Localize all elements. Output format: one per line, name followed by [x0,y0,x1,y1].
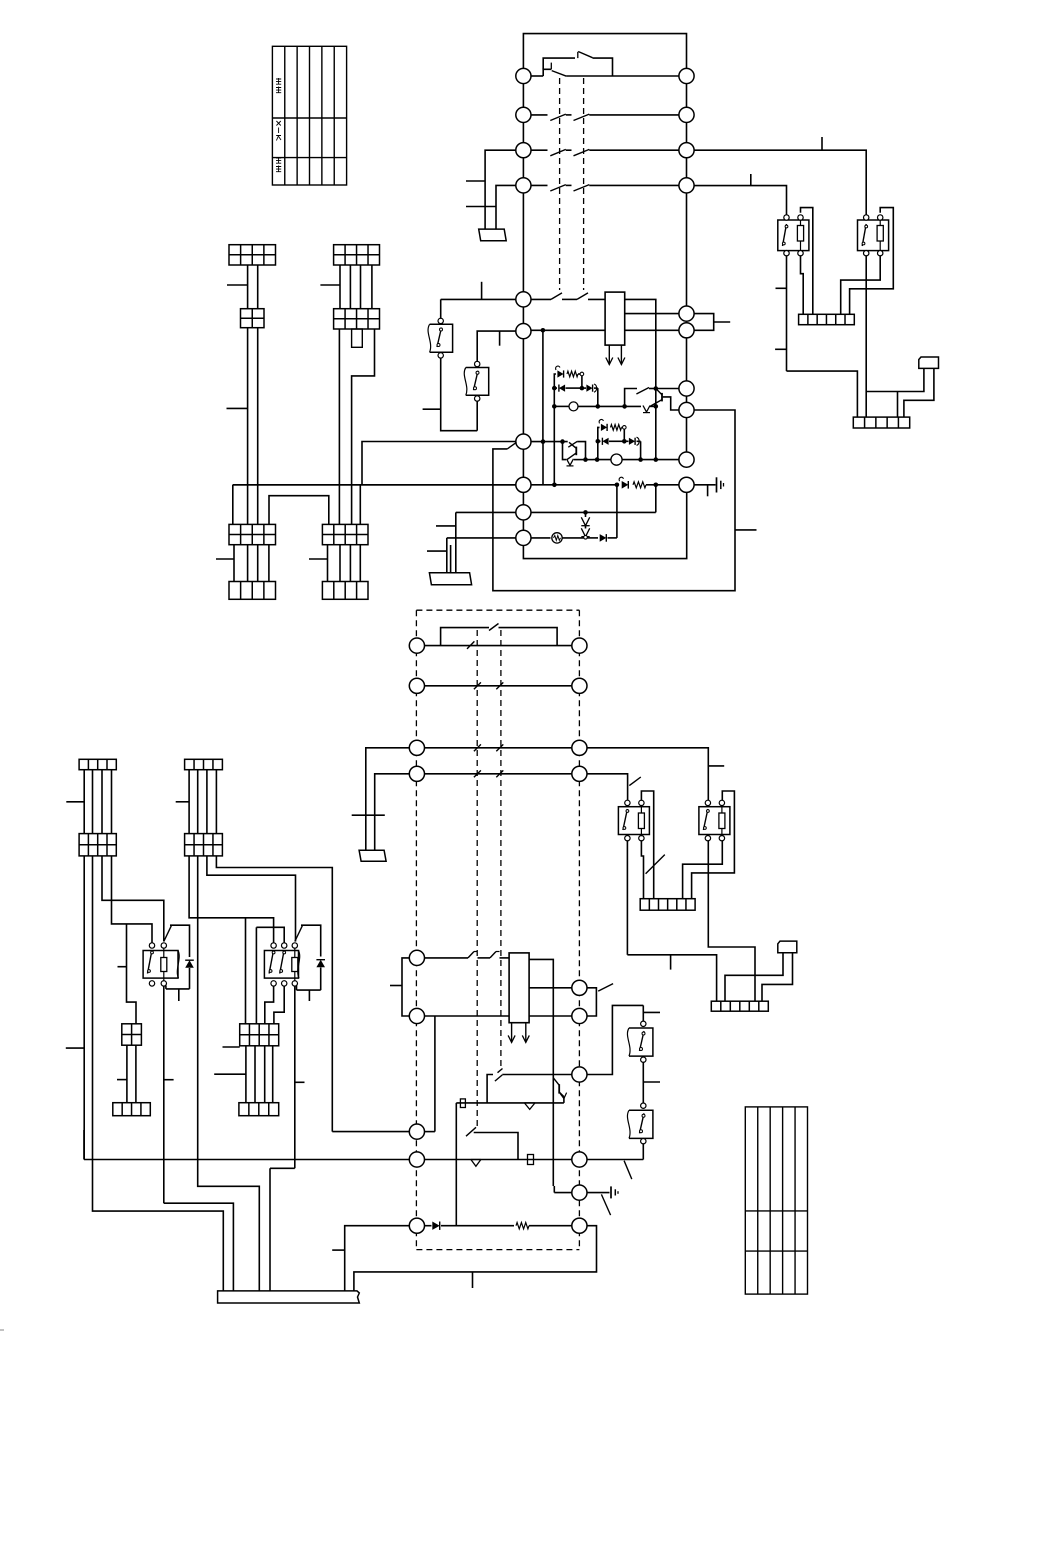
relay coil CR1 [605,292,625,345]
relay K3 contact lead [626,840,628,955]
row A bypass box [441,628,489,646]
PB1 top lead [440,299,442,318]
terminal circle L10 [516,530,531,545]
relay K4 bracket [692,791,735,899]
wire CN1 lead b [904,368,934,417]
harness row A wire [424,645,571,647]
relay coil CR4 [509,953,529,1023]
diode CR5 [432,1222,439,1230]
dashed pole line 1 [559,78,561,290]
terminal circle R1 [679,68,694,83]
conn L1 wires [83,770,85,834]
wire K5 down [163,986,165,1204]
row J left lead to bus [345,1226,410,1291]
table row2 label [276,121,281,141]
terminal circle L4 [516,178,531,193]
stack1 wires a [247,265,249,309]
harness dashed box top [416,609,579,611]
wire K3 to TB4 [627,955,716,1001]
stack2 wire b1 [338,329,340,524]
relay K3 coil lead [641,840,643,898]
terminal circle J-R [572,1218,587,1233]
chassis ground plate 3 [359,850,386,861]
left terminal column [522,84,524,292]
terminal circle E-R [572,1067,587,1082]
left rows feed verticals [455,512,457,572]
junction riser [542,330,544,441]
terminal circle L7 [516,434,531,449]
wire to switch Q1 region [598,405,625,407]
relay2 feed wires [245,918,247,1024]
left column mid [522,307,524,324]
row I wire [554,1192,572,1194]
K5 resistor [163,948,165,958]
transistor Q2 [575,447,577,456]
stub on ground lead 2 [466,206,496,208]
connector frame top [523,34,686,69]
wire L2c3 jog [207,856,296,942]
enclosure stub [735,529,757,531]
CR4 out mid [529,987,572,989]
motor M1 [552,533,562,543]
terminal circle L3 [516,143,531,158]
wire TB2 in [897,392,899,418]
wire row 538 [447,537,516,539]
left col seg 9 [522,520,524,530]
switchbox SW2 [641,1103,646,1108]
stub loop b [472,1272,474,1288]
stub k1b [775,348,786,350]
thyristor trigger TH1 [554,374,556,388]
zener chain [585,512,587,517]
TH2 right drop [640,441,642,459]
SW2 bottom lead [642,1143,644,1159]
relay K2 contact lead [865,255,867,417]
row E wire [487,1075,493,1103]
terminal circle R9 [679,452,694,467]
CR1 arrow b [620,345,622,364]
S7 bracket [577,442,585,460]
relay K4 [699,807,730,835]
blade row I [601,1194,610,1215]
stub s1b [227,407,248,409]
PB2 bottom lead [476,401,478,431]
terminal circle D-L [409,766,424,781]
bracket stub [714,321,731,323]
hook switch a [468,952,474,958]
lamp DS2 [611,454,622,465]
stub tb4 [670,955,672,970]
terminal circle L6 [516,324,531,339]
terminal circle R5 [679,306,694,321]
stub junction [821,137,823,150]
Q1 emitter wire [625,405,641,407]
K6 pin1 step [265,986,274,1024]
riser node col [655,485,657,513]
diode CR2 with gate [619,477,623,481]
stack1 mid block [241,309,265,328]
CR1 out mid [625,313,679,315]
wire row4 right to relay K2 [694,186,786,216]
stub sw1 [643,1011,660,1013]
TH1 left rail [553,388,555,406]
stub on ground lead [466,180,485,182]
bus bar [218,1291,360,1303]
CR4 arrow a [511,1023,513,1043]
table row3 label [276,157,281,163]
pushbutton switch PB1 [430,324,453,352]
stack2 wires c [327,545,329,582]
hook switch b [490,952,496,958]
stack2 low block [322,524,368,544]
terminal circle L2 [516,107,531,122]
conn L2 mid block [185,834,223,856]
blade row D [629,777,641,786]
terminal circle C-R [572,740,587,755]
ground G1 [694,484,715,486]
bracket rows K/M [402,958,409,1016]
dashed end blade [498,1069,503,1073]
terminal circle G-L [409,1124,424,1139]
blade row H right [624,1161,632,1179]
contact row 4 wire [531,184,547,186]
harness dashed left [415,610,417,1249]
contact row 2 wire [531,114,547,116]
wire K6 down [294,986,296,1169]
conn L2 top block [185,759,223,769]
relay K1 coil lead [801,255,804,314]
stub s1a [227,284,248,286]
terminal strip TB6 [239,1103,279,1116]
node column [655,389,657,407]
terminal circle R2 [679,107,694,122]
TH2 left drop [597,441,599,459]
left col seg 8 [522,449,524,477]
switchbox SW1 [642,1005,644,1021]
relay K1 bracket [801,208,813,315]
row J wire [424,1225,431,1227]
pushbutton switch PB2 [466,368,489,396]
diode V1 [524,1103,535,1110]
contact row 3 wire [531,149,547,151]
blade K3 [646,855,665,874]
right column seg [686,396,688,402]
row J return loop [354,1226,597,1291]
CR4 arrow b [525,1023,527,1043]
stack2 wire b2 [359,485,361,525]
wire L1c1 to row H [83,856,85,1160]
stub l1 low [66,1047,84,1049]
stub l1 [66,801,84,803]
stack1 wires b [247,328,249,525]
wire row3 right to relay K1 [694,150,866,215]
stub rows a [436,525,456,527]
terminal circle M-L [409,1008,424,1023]
terminal strip TB3 [640,899,695,911]
CR4 out top [529,959,553,1186]
harness row B wire [424,685,571,687]
wire bus 484 [232,485,234,525]
stack2 top block [334,245,380,265]
bottom loop wire [523,492,686,558]
row 6 wire right [625,329,679,331]
terminal circle L-R [572,980,587,995]
harness row D wire [424,773,571,775]
row G left wire [332,1131,409,1133]
terminal circle R10 [679,477,694,492]
wire CN1 lead a [866,368,924,391]
row I ground lead [587,1192,610,1194]
terminal circle B-R [572,678,587,693]
inner dashed line 1 [476,630,478,1127]
wire L1c2 to bus [93,856,224,1291]
riser row F to row J [455,1103,457,1226]
stub b1 [117,1079,127,1081]
switch S6 blade [636,388,649,395]
stack2 bottom block [322,582,368,600]
terminal circle C-L [409,740,424,755]
resistor R1 [633,482,646,488]
connector CN2 [778,941,797,953]
stack2 step wire [352,329,375,524]
B1 wires [126,1045,128,1103]
stub s1c [216,558,234,560]
right terminal column [686,84,688,306]
terminal table 2 [745,1107,807,1294]
terminal circle A-L [409,638,424,653]
row H wire [83,1130,85,1160]
stub s2c [309,558,328,560]
wire relay feed [127,924,137,1024]
terminal circle J-L [409,1218,424,1233]
row 6 wire left [531,329,605,331]
stub k5 [164,1079,174,1081]
contact row 5 wire [441,298,551,300]
wire L2c4 to row G [216,856,332,1132]
table row1 label [276,78,281,84]
terminal circle R3 [679,143,694,158]
stub sw2 [643,1081,660,1083]
terminal circle B-L [409,678,424,693]
riser CR3 [616,485,618,538]
switch S6 bracket [625,389,637,407]
wire K1 to TB2 [787,371,858,417]
wire L1c3 jog [102,856,164,942]
bracket stub KM [390,985,402,987]
dashed pole line 2 [583,78,585,290]
row C left lead to ground [366,748,410,851]
terminal circle R6 [679,323,694,338]
terminal circle A-R [572,638,587,653]
terminal circle L5 [516,292,531,307]
fuse F1 [460,1099,465,1108]
row F wire [456,1102,564,1104]
K6 suppressor diode loop [301,925,321,956]
relay K4 contact lead [708,840,755,1001]
transistor Q1 [661,393,663,402]
wire node to R7 [656,388,679,390]
terminal circle K-L [409,950,424,965]
terminal strip TB2 [853,417,909,428]
terminal strip TB1 [799,314,855,324]
spec table [272,46,346,185]
terminal circle L1 [516,68,531,83]
wire L7 row [531,441,568,443]
stack2 wires a [339,265,341,309]
enclosure hook blade [507,442,516,449]
wire L2c2 to bus [198,856,260,1291]
stub row C [708,765,724,767]
fuse F2 [528,1155,534,1165]
row D right lead [587,774,628,801]
cross stub [352,814,385,816]
right bracket [694,314,714,331]
terminal circle R8 [679,402,694,417]
terminal circle L8 [516,477,531,492]
relay K3 bracket [641,791,653,899]
B2 wires [245,1046,247,1103]
terminal circle I-R [572,1185,587,1200]
TH1 right drop [597,388,599,406]
chassis ground plate 2 [429,573,471,585]
stub s2a [320,284,340,286]
stack1 bottom block [229,582,276,600]
wire L1c4 to relay [112,856,153,944]
wire row 460 [586,459,594,461]
TH1 diode row [554,387,557,389]
stub rows b [427,550,447,552]
relay K2 [858,220,889,251]
K6 blade top [295,926,303,942]
K6 resistor [294,948,296,958]
wire row3 left to ground [485,150,516,229]
TH2 diode row [598,440,601,442]
relay K3 [618,807,649,835]
diode V2 [471,1160,481,1167]
Q3 emitter lead [563,1097,565,1103]
riser th1 [553,406,555,484]
connector CN1 [919,357,939,368]
riser row M to row G [434,1016,436,1132]
relay K5 [143,951,178,979]
row 485 right [531,484,615,486]
wire S6 to node [649,388,656,390]
conn block B1 [122,1024,142,1045]
stub rf [118,966,127,968]
terminal strip TB5 [113,1103,151,1116]
u-link wire [269,496,329,525]
stack2 mid block [334,309,380,329]
bracket rows L/M right [587,988,596,1016]
conn L1 top block [79,759,116,769]
row C right lead [587,748,708,801]
chassis ground plate top [479,229,507,241]
row E right lead [587,1005,643,1074]
inner dashed line 2 [500,630,502,1070]
enclosure box [493,410,735,591]
page mark [0,1329,4,1331]
switch to row H [466,1127,476,1136]
stub k1a [776,287,787,289]
K5 tick [178,989,180,1001]
row D left lead to ground [375,774,410,851]
wire row 485 left [233,484,516,486]
stub junction 2 [750,174,752,186]
stack1 low block [229,524,276,544]
transistor Q3 [558,1084,560,1093]
right column mid [686,338,688,381]
terminal circle H-L [409,1152,424,1167]
harness dashed right [578,610,580,1249]
relay K4 coil lead [683,840,723,898]
PB1 bottom lead [441,358,478,431]
terminal circle M-R [572,1008,587,1023]
row K wire [424,957,468,959]
row G right wire [424,1131,435,1133]
switch S7 blade [568,441,577,447]
stub l2 [176,801,189,803]
stub k6 [295,1081,305,1083]
PB2 top lead [477,331,516,362]
relay K2 coil lead [841,255,881,314]
terminal circle D-R [572,766,587,781]
wire bus 441 [362,442,516,485]
harness row C wire [424,747,571,749]
Q1 collector out [663,397,679,410]
bypass branch with switch [543,58,575,69]
blade LM [598,984,613,992]
wire CN2 lead b [762,953,793,1002]
relay K1 contact lead [786,255,788,371]
wire CN2 lead a [725,953,783,1002]
terminal circle L9 [516,505,531,520]
terminal circle R4 [679,178,694,193]
diode CR3 [600,534,607,542]
stub r2a [223,1046,240,1048]
stack1 wires c [233,545,235,582]
wire row4 left to ground [496,185,516,229]
thyristor trigger TH2 [598,427,600,441]
stub row5 [481,282,483,300]
terminal circle R7 [679,381,694,396]
CR1 arrow a [608,345,610,364]
switchbox link [642,1062,644,1104]
wire to bus 4 [270,1167,295,1169]
row M wire [424,1015,509,1017]
conn L2 wires [188,770,190,834]
resistor R2 [516,1223,529,1229]
CR1 out top [625,299,656,388]
harness dashed bottom [416,1249,579,1251]
stack1 top block [229,245,276,265]
stub pb1 [423,408,441,410]
Q2 emitter bracket [563,442,567,460]
ground G2 [610,1186,612,1198]
riser l8 [542,442,544,485]
terminal strip TB4 [711,1001,768,1011]
K5 suppressor diode loop [170,925,190,957]
K6 tick [308,990,310,1001]
terminal circle H-R [572,1152,587,1167]
stub loop a [332,1249,345,1251]
wire to bus 2 [164,1203,234,1291]
contact row 1 wire [531,75,543,77]
stub r2b [214,1073,246,1075]
lamp DS1 [554,405,569,407]
conn block B2 [240,1024,279,1046]
relay K1 [778,220,809,251]
K5 blade top [164,926,172,942]
